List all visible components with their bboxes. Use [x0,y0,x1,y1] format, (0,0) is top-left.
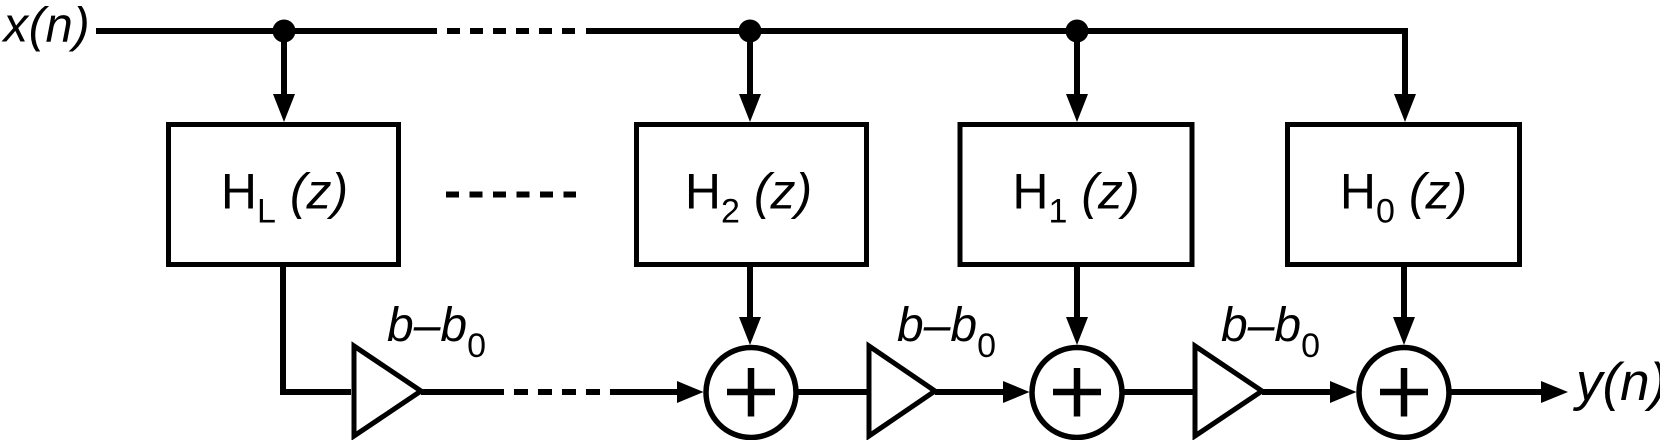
adder 1 circle [706,348,796,438]
gain triangle 3 (b-b0) [1195,346,1262,436]
wire: H2 output down to adder 1 [747,264,753,322]
svg-text:y(n): y(n) [1573,353,1660,412]
adder 3 circle [1359,348,1449,438]
junction dot above H1 [1066,20,1089,43]
wire: HL output down and right to gain triangle [283,264,351,392]
arrowhead into adder 2 left [1003,381,1030,403]
filter block HL(z) [169,125,399,265]
wire: H0 output down to adder 3 [1401,264,1407,322]
gain triangle 1 (b-b0) [354,346,421,436]
arrowhead into adder 1 left [677,381,704,403]
filter block H0(z) [1288,125,1520,265]
wire: adder 2 output to triangle 3 [1124,389,1193,395]
arrowhead into HL top [273,94,295,122]
wire: triangle 2 output to adder 2 [935,389,1007,395]
wire: drop from junction into H1 [1074,31,1080,98]
adder 2 plus sign [1053,368,1101,417]
arrowhead into H2 top [739,94,761,122]
wire: drop from junction into H2 [747,31,753,98]
svg-text:b–b0: b–b0 [1221,299,1320,365]
adder 3 plus sign [1380,368,1428,417]
svg-text:x(n): x(n) [2,0,91,53]
wire: H1 output down to adder 2 [1074,264,1080,322]
svg-text:b–b0: b–b0 [897,299,996,365]
arrowhead into H1 top [1066,94,1088,122]
arrowhead into adder 3 top [1393,317,1415,345]
wire: triangle 1 output solid [421,389,504,395]
arrowhead at output [1541,381,1568,403]
arrowhead into adder 3 left [1330,381,1357,403]
gain triangle 2 (b-b0) [869,346,935,436]
junction dot above HL [273,20,296,43]
wire: triangle 1 output dashed break [514,389,600,395]
arrowhead into H0 top [1394,94,1416,122]
junction dot above H2 [739,20,762,43]
arrowhead into adder 2 top [1066,317,1088,345]
wire: into adder 1 solid [610,389,681,395]
wire: drop from junction into HL [281,31,287,98]
dashed break between HL and H2 blocks [446,192,576,198]
wire: triangle 3 output to adder 3 [1262,389,1333,395]
filter block H2(z) [637,125,867,265]
wire: adder 3 output to y(n) [1451,389,1545,395]
wire: top bus dashed segment [447,28,576,34]
adder 1 plus sign [727,368,775,417]
wire: top bus solid segment from x(n) to dashed break [96,28,437,34]
adder 2 circle [1032,348,1122,438]
arrowhead into adder 1 top [739,317,761,345]
wire: top bus solid segment to corner above H0 with corner drop [586,31,1405,100]
wire: adder 1 output to triangle 2 [798,389,867,395]
svg-text:b–b0: b–b0 [387,299,486,365]
filter block H1(z) [960,125,1192,265]
